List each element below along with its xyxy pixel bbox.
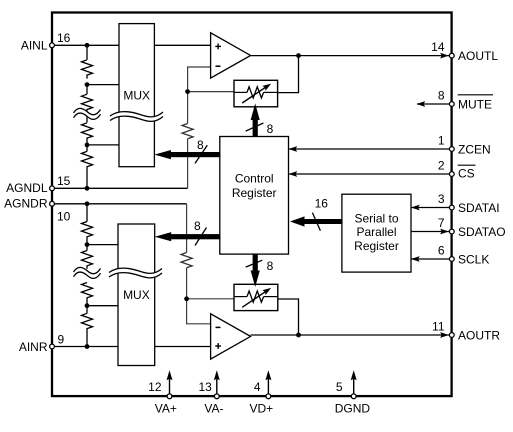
pin 15 AGNDL: [50, 186, 55, 191]
svg-text:MUTE: MUTE: [458, 97, 492, 111]
power pin arrow VA-: [214, 370, 220, 396]
node tap2 wire to MUX1: [87, 144, 119, 146]
svg-text:MUX: MUX: [123, 89, 150, 103]
junction node N2: [184, 296, 189, 301]
power pin arrow DGND: [351, 370, 357, 396]
wire ladder 1: [86, 145, 88, 152]
pin 4 VD+: [266, 394, 271, 399]
svg-text:AOUTL: AOUTL: [458, 49, 498, 63]
chip boundary: [52, 13, 452, 397]
MUX block 2: [118, 224, 155, 366]
pin 3 SDATAI: [449, 205, 454, 210]
svg-text:3: 3: [438, 192, 445, 206]
break symbol over MUX 2: [109, 268, 162, 278]
pin 5 DGND: [351, 394, 356, 399]
junction node on AINL: [85, 43, 90, 48]
wire SDATAI to Serial-to-Parallel Register: [411, 207, 449, 209]
svg-text:AGNDL: AGNDL: [6, 181, 48, 195]
svg-text:14: 14: [431, 40, 445, 54]
wire node N2 up to resistor R6: [186, 268, 188, 299]
wire CS to Control Register: [289, 173, 450, 175]
op-amp U2: [211, 314, 251, 359]
wire op-amp U1 - input to node N1: [188, 67, 211, 92]
svg-text:13: 13: [198, 380, 212, 394]
junction node output R: [296, 333, 301, 338]
bus Serial-to-Parallel to Control Register, 16 bits: [290, 196, 342, 230]
svg-text:9: 9: [58, 332, 65, 346]
wire SCLK to Serial-to-Parallel Register: [411, 258, 449, 260]
gain element G2: [234, 284, 278, 310]
pin 16 AINL: [50, 43, 55, 48]
svg-text:SDATAI: SDATAI: [458, 201, 500, 215]
bus Control Register to MUX1, 8 bits: [154, 138, 220, 164]
resistor R5: [182, 124, 193, 139]
arrowhead SDATAO: [440, 229, 449, 235]
junction node on AINR: [85, 344, 90, 349]
bus Control Register up to gain element G1, 8 bits: [246, 104, 274, 137]
svg-text:Register: Register: [354, 239, 399, 253]
resistor R9: [82, 283, 93, 306]
svg-text:8: 8: [267, 122, 274, 136]
resistor R7: [82, 222, 93, 246]
pin 12 VA+: [167, 394, 172, 399]
pin 9 AINR: [50, 344, 55, 349]
svg-text:VA-: VA-: [204, 401, 223, 415]
power pin arrow VD+: [265, 370, 271, 396]
pin 2 CS: [449, 172, 454, 177]
resistor R10: [82, 313, 93, 344]
svg-text:8: 8: [267, 259, 274, 273]
bus Control Register down to gain element G2, 8 bits: [246, 254, 274, 287]
gain element G1: [234, 80, 278, 107]
wire op-amp U1 output to AOUTL: [251, 55, 449, 57]
arrowhead ZCEN at Control Register: [289, 146, 298, 152]
wire ladder 2: [86, 245, 88, 251]
ladder 1 top segment from AINL node: [86, 45, 88, 60]
node tap3 wire to MUX2: [87, 244, 118, 246]
svg-text:2: 2: [438, 158, 445, 172]
arrowhead CS at Control Register: [289, 171, 298, 177]
resistor R4: [82, 151, 93, 188]
svg-text:AOUTR: AOUTR: [458, 328, 500, 342]
op-amp U1: [211, 33, 251, 78]
svg-text:Register: Register: [232, 186, 277, 200]
svg-text:VA+: VA+: [155, 401, 177, 415]
arrowhead AOUTL: [440, 53, 449, 59]
resistor R1: [82, 60, 93, 79]
resistor R2: [82, 94, 93, 122]
pin 10 AGNDR: [50, 201, 55, 206]
svg-text:10: 10: [57, 209, 71, 223]
wire AINR to MUX2: [52, 346, 118, 348]
wire MUX1 to op-amp U1 + input: [154, 44, 210, 46]
svg-text:Control: Control: [235, 171, 274, 185]
junction node tap4: [85, 303, 90, 308]
svg-text:CS: CS: [458, 167, 475, 181]
wire MUX2 to op-amp U2 + input: [155, 346, 211, 348]
break symbol over ladder 2: [74, 267, 101, 278]
wire MUTE stub: [417, 103, 449, 105]
junction node tap2: [85, 143, 90, 148]
wire AGNDR: [52, 203, 187, 205]
node tap1 wire to MUX1: [87, 84, 119, 86]
svg-text:AGNDR: AGNDR: [4, 196, 48, 210]
svg-text:11: 11: [432, 319, 445, 333]
svg-text:16: 16: [315, 196, 329, 210]
wire ladder 1: [86, 85, 88, 95]
wire feedback from output node down to gain element G1: [278, 56, 299, 93]
svg-text:ZCEN: ZCEN: [458, 142, 491, 156]
svg-text:8: 8: [438, 88, 445, 102]
svg-text:8: 8: [194, 219, 201, 233]
break symbol over ladder 1: [74, 108, 101, 119]
wire op-amp U2 output to AOUTR: [251, 334, 449, 336]
wire node N1 down to resistor R5: [187, 92, 189, 124]
junction node N1: [185, 89, 190, 94]
svg-text:Parallel: Parallel: [356, 225, 396, 239]
svg-text:15: 15: [57, 174, 71, 188]
svg-text:7: 7: [438, 216, 445, 230]
svg-text:MUX: MUX: [123, 288, 150, 302]
pin 13 VA-: [214, 394, 219, 399]
MUX block 1: [119, 24, 154, 167]
svg-text:1: 1: [438, 133, 445, 147]
junction node tap1: [85, 82, 90, 87]
pin 8 MUTE: [449, 102, 454, 107]
Control Register block: [220, 137, 289, 255]
svg-text:12: 12: [148, 380, 162, 394]
svg-text:6: 6: [438, 243, 445, 257]
svg-text:5: 5: [336, 380, 343, 394]
wire feedback from output node up to gain element G2: [278, 299, 299, 335]
junction node tap3: [85, 242, 90, 247]
node tap4 wire to MUX2: [87, 305, 118, 307]
wire node N2 to gain element G2: [187, 298, 234, 300]
junction node on AGNDL: [85, 186, 90, 191]
pin 11 AOUTR: [449, 333, 454, 338]
wire ZCEN to Control Register: [289, 148, 450, 150]
break symbol over MUX 1: [110, 111, 163, 121]
wire AGNDL: [52, 187, 188, 189]
svg-text:SCLK: SCLK: [458, 252, 489, 266]
resistor R3: [82, 123, 93, 147]
junction node on AGNDR: [85, 201, 90, 206]
pin 7 SDATAO: [449, 229, 454, 234]
resistor R6: [181, 253, 192, 268]
svg-text:DGND: DGND: [335, 401, 371, 415]
svg-text:AINL: AINL: [21, 39, 48, 53]
wire op-amp U2 - input to node N2: [187, 299, 211, 324]
svg-text:4: 4: [254, 380, 261, 394]
wire resistor R5 to AGNDL: [187, 139, 189, 189]
pin 6 SCLK: [449, 257, 454, 262]
bus Control Register to MUX2, 8 bits: [155, 219, 221, 246]
wire ladder 2: [86, 306, 88, 314]
ladder 2 top segment from AGNDR node: [86, 204, 88, 222]
svg-text:Serial to: Serial to: [354, 211, 398, 225]
resistor R8: [82, 251, 93, 269]
svg-text:AINR: AINR: [19, 340, 48, 354]
svg-text:8: 8: [197, 138, 204, 152]
wire node N1 to gain element G1: [188, 91, 234, 93]
svg-text:16: 16: [57, 31, 71, 45]
arrowhead SDATAI at Serial-to-Parallel Register: [411, 205, 420, 211]
svg-text:SDATAO: SDATAO: [458, 225, 506, 239]
arrowhead SCLK at Serial-to-Parallel Register: [411, 256, 420, 262]
pin 1 ZCEN: [449, 147, 454, 152]
svg-text:VD+: VD+: [249, 401, 273, 415]
pin 14 AOUTL: [449, 53, 454, 58]
junction node output L: [296, 53, 301, 58]
power pin arrow VA+: [167, 370, 173, 396]
arrowhead AOUTR: [440, 332, 449, 338]
Serial to Parallel Register block: [342, 194, 411, 272]
wire resistor R6 to AGNDR: [186, 204, 188, 253]
wire SDATAO from Serial-to-Parallel Register: [411, 231, 449, 233]
wire AINL to MUX1: [52, 44, 119, 46]
arrowhead MUTE: [417, 101, 426, 107]
